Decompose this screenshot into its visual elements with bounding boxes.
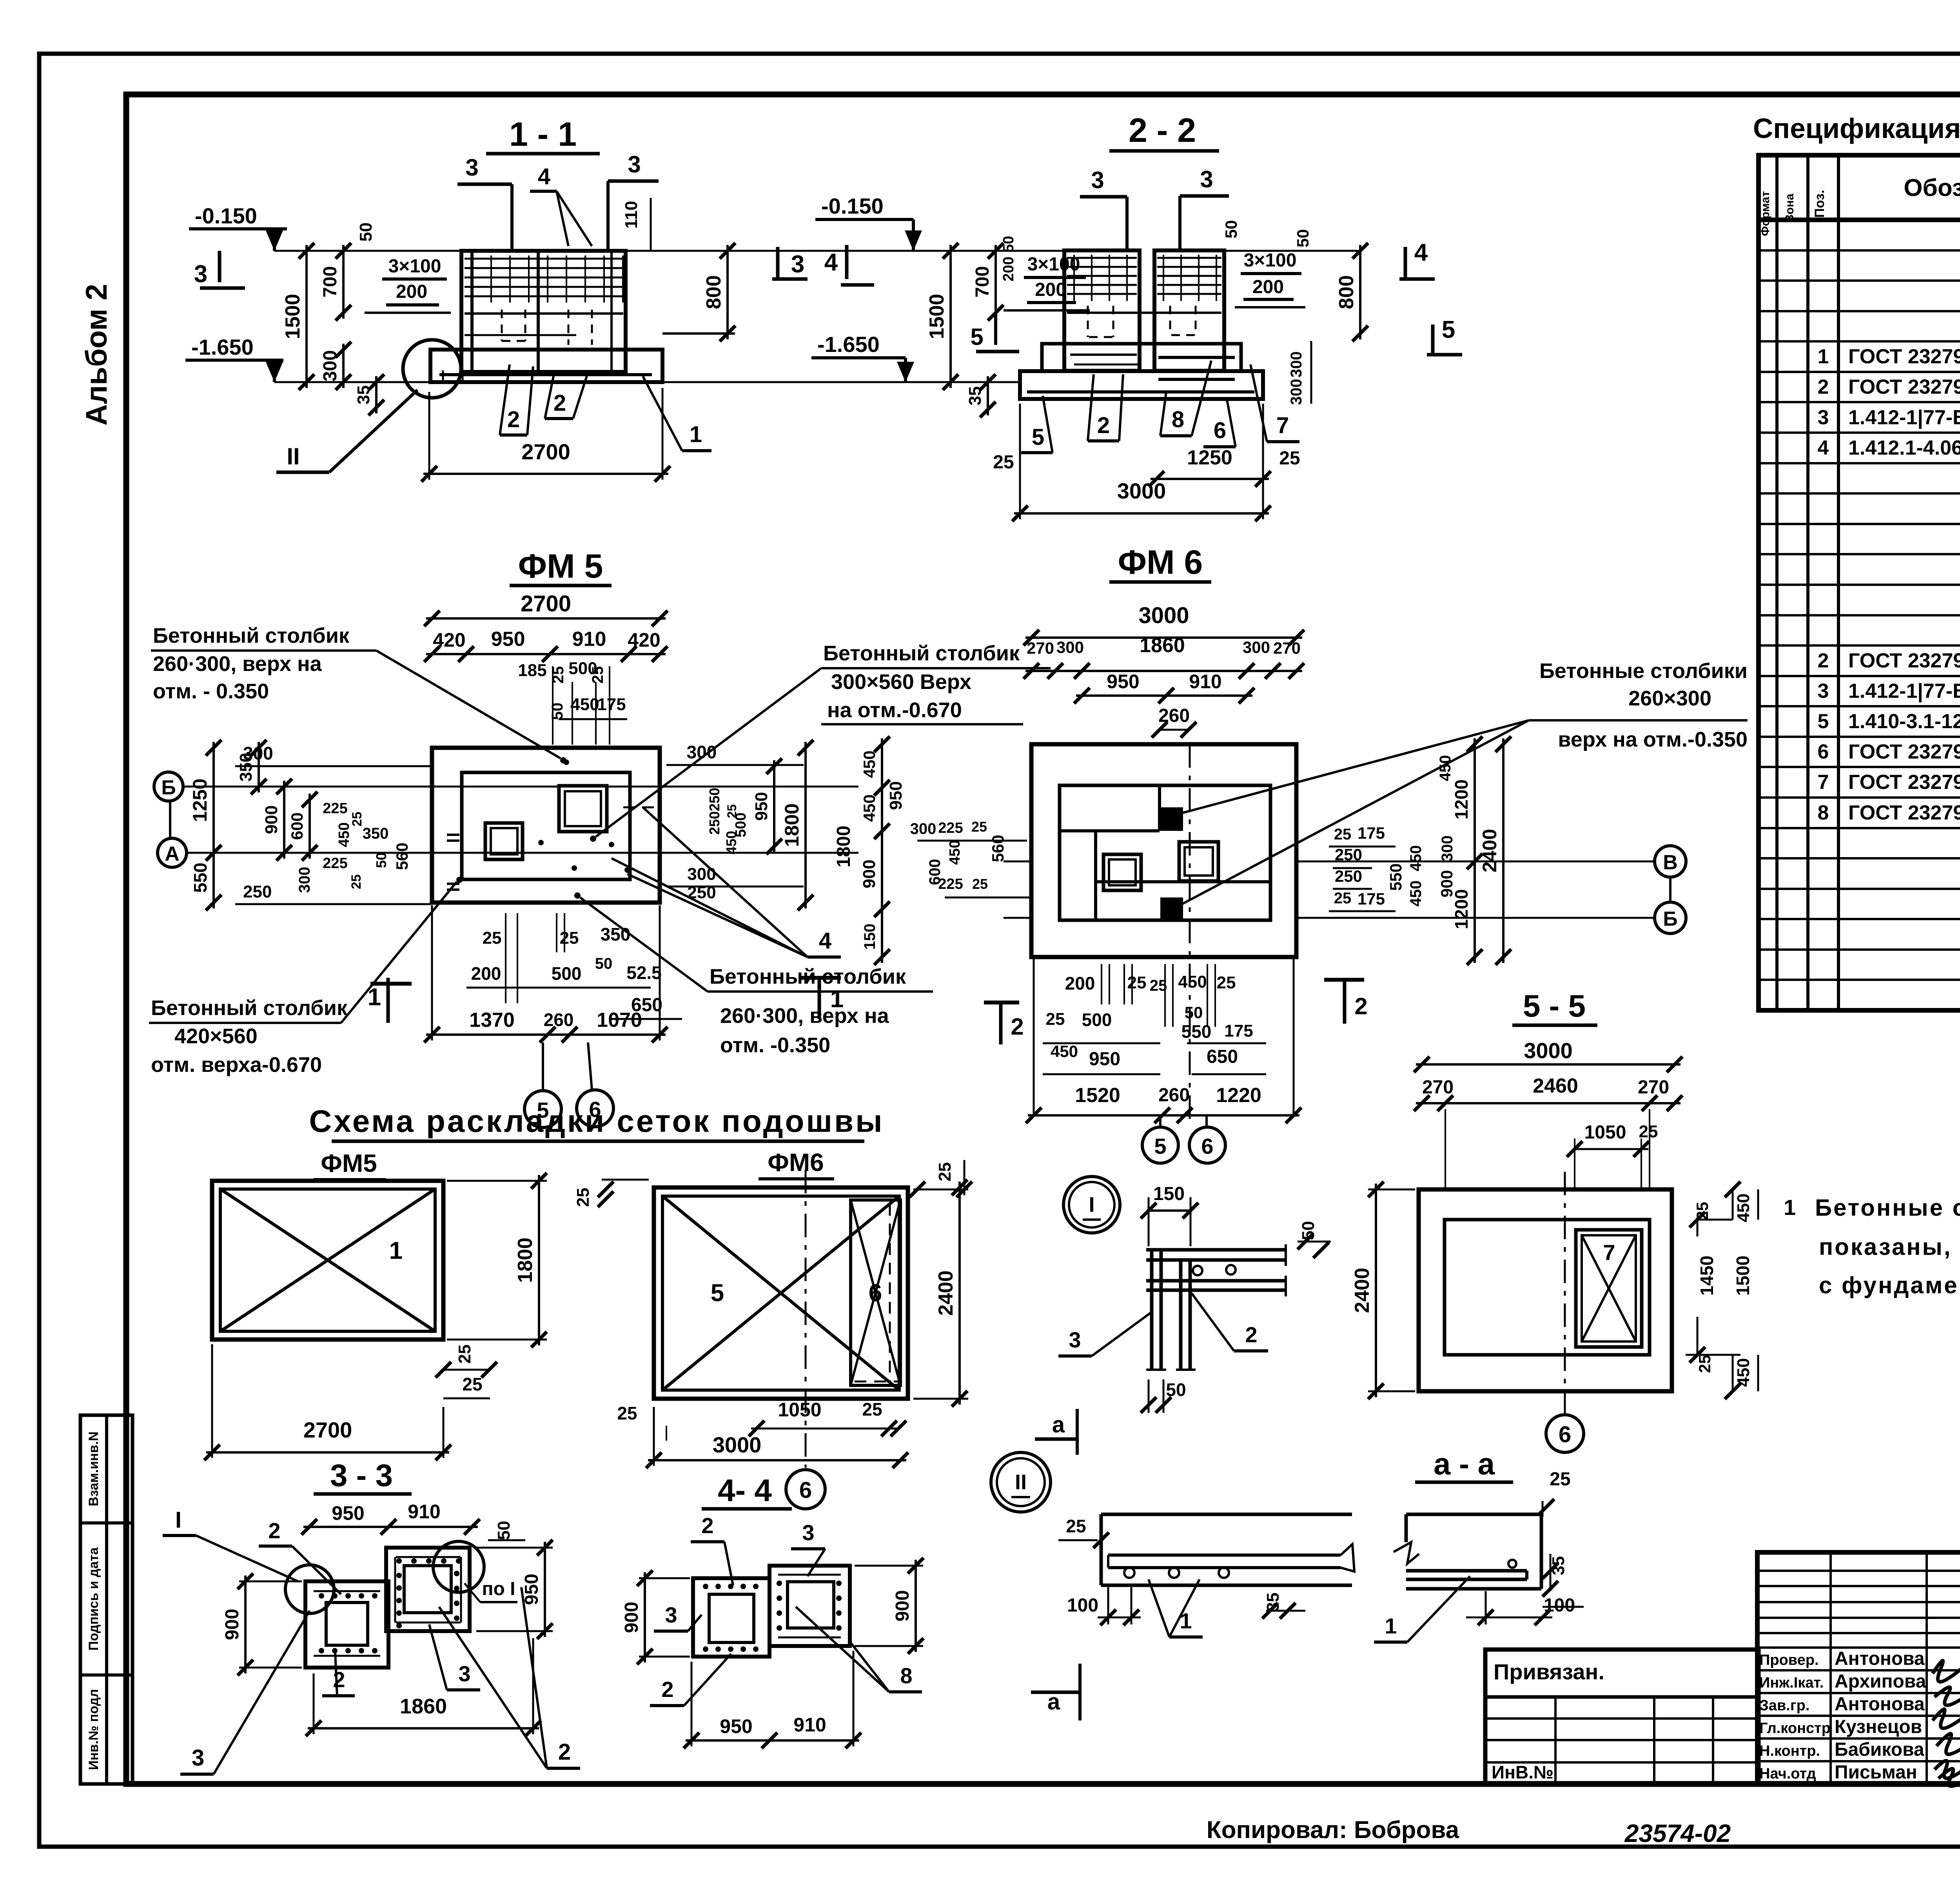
svg-text:450: 450 [1407, 845, 1425, 872]
svg-text:225: 225 [323, 800, 347, 817]
FM5 right column square [559, 786, 607, 832]
svg-text:175: 175 [1224, 1021, 1253, 1041]
svg-text:25: 25 [1334, 890, 1352, 907]
FM5 label betonny stolbik right [590, 642, 1051, 842]
svg-text:25: 25 [462, 1374, 482, 1394]
svg-text:а: а [1052, 1412, 1065, 1438]
svg-text:800: 800 [702, 275, 725, 309]
1-1 label 2 leaders [500, 364, 588, 435]
svg-text:В: В [1663, 851, 1678, 874]
spec row pos1 [1818, 344, 1960, 372]
svg-text:300: 300 [1288, 379, 1305, 405]
svg-text:3×100: 3×100 [388, 256, 441, 277]
svg-text:Альбом 2: Альбом 2 [80, 284, 113, 426]
FM5 axis circle B [154, 772, 183, 801]
1-1 elevation -1.650 left [185, 335, 283, 382]
svg-text:4- 4: 4- 4 [718, 1473, 772, 1508]
svg-text:2700: 2700 [303, 1418, 352, 1442]
svg-text:Спецификация элементов монолит: Спецификация элементов монолитной констр… [1753, 113, 1960, 144]
2-2 dim 50 upper right [1222, 220, 1240, 239]
detail I label 3 [1058, 1313, 1151, 1356]
svg-text:1500: 1500 [281, 294, 304, 339]
svg-text:Обозначение: Обозначение [1904, 174, 1960, 201]
svg-text:25: 25 [1217, 973, 1236, 992]
svg-text:Б: Б [1663, 908, 1677, 930]
svg-text:ГОСТ 23279-85: ГОСТ 23279-85 [1848, 345, 1960, 368]
svg-text:25: 25 [617, 1403, 637, 1423]
svg-text:А: А [165, 843, 180, 865]
svg-text:950: 950 [491, 628, 525, 651]
FM5 axis line B [183, 786, 858, 788]
a-a title [1415, 1447, 1513, 1482]
svg-text:25: 25 [1334, 826, 1352, 843]
strip label Podpis i data [86, 1547, 101, 1651]
2-2 bottom labels 5 2 8 6 7 [1021, 361, 1299, 453]
svg-text:35: 35 [354, 385, 373, 404]
schema FM5 label [314, 1149, 386, 1180]
FM6 plan step [1060, 785, 1270, 920]
svg-text:450: 450 [1178, 972, 1207, 992]
svg-text:900: 900 [222, 1609, 243, 1640]
svg-text:отм. верха-0.670: отм. верха-0.670 [151, 1053, 322, 1077]
svg-text:Взам.инв.N: Взам.инв.N [86, 1432, 101, 1506]
FM6 dim 3000 top [1024, 603, 1304, 645]
5-5 callout circle 6 [1546, 1415, 1584, 1452]
FM5 dim row 420 950 910 420 [424, 628, 668, 662]
5-5 right dims 25 450 1450 1500 25 450 [1686, 1182, 1758, 1399]
svg-text:1800: 1800 [514, 1238, 537, 1283]
svg-text:4: 4 [819, 928, 831, 954]
FM6 right dims 300 900 1200 2400 [1437, 736, 1511, 965]
svg-text:2: 2 [1245, 1322, 1257, 1347]
svg-text:2400: 2400 [935, 1271, 957, 1316]
1-1 column outline [461, 251, 626, 372]
svg-text:7: 7 [1276, 413, 1289, 438]
1-1 footing slab [430, 350, 662, 382]
svg-text:Антонова: Антонова [1835, 1648, 1925, 1669]
title block outer [1757, 1552, 1960, 1784]
1-1 dim 110 [622, 198, 651, 251]
svg-text:950: 950 [332, 1502, 364, 1524]
schema FM6 dim 25 top right [909, 1160, 972, 1197]
svg-text:Привязан.: Привязан. [1494, 1659, 1604, 1684]
4-4 right square [769, 1566, 850, 1646]
svg-text:Подпись и дата: Подпись и дата [86, 1547, 101, 1651]
svg-text:5: 5 [1442, 316, 1455, 343]
1-1 label 1 leader [643, 376, 711, 451]
svg-text:верх на отм.-0.350: верх на отм.-0.350 [1558, 728, 1748, 751]
1-1 right markers 3 and 4 [772, 245, 874, 285]
svg-text:5: 5 [711, 1280, 724, 1307]
svg-text:1860: 1860 [400, 1695, 447, 1718]
svg-text:1: 1 [1385, 1613, 1397, 1638]
svg-text:ФМ6: ФМ6 [768, 1148, 824, 1177]
svg-text:300: 300 [910, 820, 936, 838]
FM5 right dims 300 950 1800 [666, 740, 813, 910]
svg-text:4: 4 [538, 164, 550, 189]
FM5 section marker 1T left [368, 978, 412, 1023]
3-3 dim 1860 [306, 1638, 541, 1736]
FM6 axis circle B2 [1655, 902, 1686, 934]
detail I dim 50 right [1298, 1221, 1331, 1258]
svg-text:3000: 3000 [1138, 603, 1189, 628]
4-4 label 3 top [791, 1520, 825, 1576]
svg-text:6: 6 [1818, 741, 1829, 763]
svg-text:II: II [1015, 1470, 1027, 1494]
svg-text:2460: 2460 [1533, 1075, 1578, 1097]
svg-text:4: 4 [824, 249, 838, 276]
svg-text:Бетонные столбики: Бетонные столбики [1539, 659, 1748, 683]
detail II dim 25 [1058, 1516, 1109, 1548]
svg-text:6: 6 [1201, 1134, 1213, 1158]
svg-text:Антонова: Антонова [1835, 1694, 1925, 1715]
svg-text:450: 450 [1734, 1358, 1753, 1387]
2-2 anchor dashed [1088, 306, 1196, 337]
svg-text:7: 7 [1818, 771, 1829, 794]
1-1 elevation -0.150 left [189, 203, 287, 251]
signature squiggles [1933, 1661, 1960, 1786]
svg-text:3: 3 [1091, 167, 1104, 193]
svg-text:225: 225 [938, 820, 963, 836]
schema FM5 mesh rect [212, 1181, 443, 1340]
5-5 inner rect [1445, 1220, 1650, 1355]
svg-text:Н.контр.: Н.контр. [1759, 1743, 1820, 1759]
2-2 columns mid line [1067, 312, 1221, 314]
svg-text:800: 800 [1335, 275, 1358, 309]
schema FM6 dim 3000 [646, 1407, 908, 1468]
schema FM6 inner mesh 6 [851, 1200, 900, 1385]
svg-text:25: 25 [589, 666, 606, 684]
svg-text:450: 450 [570, 695, 599, 714]
svg-text:2: 2 [701, 1513, 713, 1538]
2-2 dim 3x100 200 right [1235, 250, 1305, 307]
svg-text:35: 35 [965, 386, 985, 406]
svg-text:150: 150 [1153, 1184, 1185, 1204]
svg-text:200: 200 [1065, 973, 1095, 993]
svg-text:350: 350 [236, 753, 256, 781]
detail I dim 150 [1141, 1184, 1198, 1246]
svg-text:Архипова: Архипова [1835, 1671, 1926, 1692]
svg-text:300×560 Верх: 300×560 Верх [831, 670, 971, 694]
FM6 label betonnye stolbiki right [1168, 659, 1748, 912]
svg-text:185: 185 [518, 661, 546, 680]
4-4 label 2 bottom left [650, 1654, 731, 1706]
svg-text:260·300, верх на: 260·300, верх на [720, 1004, 889, 1028]
svg-text:Гл.констр: Гл.констр [1759, 1720, 1831, 1737]
svg-text:-1.650: -1.650 [817, 332, 880, 357]
FM6 dim row 950 910 [1074, 671, 1254, 703]
svg-text:Письман: Письман [1835, 1762, 1917, 1783]
svg-text:25: 25 [1639, 1122, 1658, 1141]
svg-text:Кузнецов: Кузнецов [1835, 1717, 1922, 1737]
schema FM6 label [759, 1148, 834, 1179]
svg-text:420: 420 [628, 629, 660, 651]
5-5 dim 1050 25 [1567, 1122, 1658, 1189]
3-3 label 1 leader [163, 1507, 298, 1581]
svg-text:3: 3 [802, 1520, 814, 1545]
svg-text:50: 50 [494, 1521, 514, 1540]
svg-text:отм. -0.350: отм. -0.350 [720, 1033, 830, 1057]
svg-text:1370: 1370 [469, 1009, 515, 1031]
svg-text:2: 2 [1818, 376, 1829, 399]
privyazan block [1485, 1650, 1759, 1784]
spec table grid [1759, 155, 1960, 1010]
FM5 plan title [510, 547, 612, 586]
svg-text:900: 900 [621, 1602, 642, 1633]
note text line 3 [1819, 1272, 1960, 1298]
svg-text:Бабикова: Бабикова [1835, 1739, 1924, 1760]
svg-text:3: 3 [628, 151, 641, 178]
FM6 dim 260 [1152, 705, 1196, 738]
svg-text:5: 5 [1032, 424, 1044, 450]
FM5 small dims 185 25 500 25 [518, 659, 610, 745]
2-2 top marker 3 right [1180, 166, 1229, 251]
svg-text:50: 50 [373, 852, 389, 868]
svg-text:3 - 3: 3 - 3 [330, 1458, 393, 1493]
a-a dim 25 [1539, 1469, 1571, 1517]
FM5 left dims 300 350 [235, 740, 431, 794]
FM6 plan title [1109, 544, 1211, 582]
svg-text:25: 25 [483, 928, 502, 948]
note text line 2 [1819, 1234, 1960, 1260]
schema FM6 dim 2400 [913, 1180, 968, 1407]
4-4 dim 900 left [621, 1570, 690, 1664]
svg-text:Схема раскладки сеток подошвы: Схема раскладки сеток подошвы [309, 1104, 884, 1138]
svg-text:175: 175 [1357, 890, 1385, 908]
1-1 inner step lines [465, 314, 623, 335]
1-1 top marker 3 right [608, 151, 659, 251]
FM6 left small dims 300 225 450 25 560 [910, 819, 1031, 897]
FM6 bottom dims row3 450 950 650 [1043, 1042, 1266, 1074]
svg-text:150: 150 [861, 924, 878, 950]
svg-text:300: 300 [1056, 638, 1084, 656]
1-1 dim 800 right [662, 243, 735, 341]
svg-text:Бетонный столбик: Бетонный столбик [710, 965, 906, 988]
svg-text:25: 25 [993, 452, 1014, 473]
svg-text:200: 200 [1035, 279, 1066, 300]
svg-text:910: 910 [572, 628, 606, 651]
schema FM6 dim 25 top left [573, 1180, 649, 1207]
spec table header labels [1759, 174, 1960, 236]
5-5 mesh 7 rect [1576, 1230, 1642, 1347]
FM6 T2 marker left [984, 1002, 1024, 1044]
svg-text:25: 25 [1695, 1355, 1714, 1373]
svg-text:250: 250 [243, 882, 272, 901]
svg-text:950: 950 [720, 1715, 752, 1737]
svg-text:300: 300 [1439, 836, 1456, 862]
FM5 axis line A [185, 852, 858, 854]
FM6 left dims column [833, 736, 906, 965]
svg-text:Зав.гр.: Зав.гр. [1759, 1697, 1809, 1714]
svg-text:260: 260 [544, 1010, 574, 1030]
detail I corner mesh vertical bars [1146, 1250, 1196, 1370]
svg-text:175: 175 [597, 695, 626, 714]
3-3 dim 950 right [476, 1540, 553, 1639]
detail I label 2 [1192, 1293, 1268, 1351]
spec row pos8 fm6 [1818, 800, 1960, 828]
svg-text:1: 1 [690, 422, 702, 447]
1-1 column rebar verticals [472, 253, 612, 376]
svg-text:ГОСТ 23279.85: ГОСТ 23279.85 [1848, 649, 1960, 672]
svg-text:1250: 1250 [189, 778, 211, 822]
FM6 bottom projection lines [1034, 744, 1294, 1125]
svg-text:ГОСТ 23279 -85: ГОСТ 23279 -85 [1848, 771, 1960, 794]
svg-text:2: 2 [554, 390, 566, 416]
svg-text:25: 25 [1127, 973, 1147, 992]
FM6 callout circles 5 6 [1142, 1115, 1225, 1163]
svg-text:260×300: 260×300 [1628, 687, 1711, 710]
svg-text:52.5: 52.5 [626, 963, 662, 983]
svg-text:ИнВ.№: ИнВ.№ [1492, 1762, 1553, 1782]
svg-text:1: 1 [389, 1237, 403, 1264]
FM5 bottom dim 1370 260 1070 [424, 905, 668, 1042]
FM5 plan step rect [462, 772, 630, 879]
svg-text:а - а: а - а [1434, 1447, 1495, 1481]
svg-text:550: 550 [1387, 863, 1405, 891]
svg-text:3: 3 [192, 1745, 204, 1771]
5-5 centerline [1564, 1172, 1566, 1415]
svg-text:I: I [175, 1507, 181, 1533]
svg-text:3000: 3000 [713, 1432, 762, 1457]
svg-text:100: 100 [1067, 1595, 1098, 1616]
svg-text:50: 50 [1294, 229, 1312, 248]
svg-text:25: 25 [935, 1162, 955, 1182]
section 5-5 title [1512, 988, 1597, 1025]
2-2 right markers 4 5 [1399, 239, 1462, 355]
svg-text:25: 25 [455, 1345, 474, 1364]
1-1 dim 1500 left [281, 243, 314, 390]
svg-text:450: 450 [947, 840, 963, 865]
2-2 pedestal step [1042, 344, 1241, 371]
3-3 label 2 top leader [259, 1518, 341, 1594]
spec row pos3 [1818, 406, 1960, 429]
3-3 label 2 right bottom [439, 1587, 580, 1768]
svg-text:6: 6 [799, 1477, 812, 1503]
svg-text:50: 50 [595, 955, 613, 972]
svg-text:500: 500 [552, 963, 582, 984]
detail I corner mesh horizontal bars [1146, 1244, 1286, 1296]
svg-text:350: 350 [601, 924, 631, 944]
svg-text:300: 300 [687, 865, 716, 884]
svg-text:1800: 1800 [781, 803, 803, 847]
svg-text:8: 8 [1172, 407, 1184, 432]
svg-text:270: 270 [1273, 639, 1301, 657]
detail II dim 100 [1067, 1587, 1141, 1625]
svg-text:на отм.-0.670: на отм.-0.670 [827, 698, 962, 722]
svg-text:6: 6 [1214, 418, 1226, 443]
svg-text:8: 8 [900, 1663, 912, 1688]
svg-text:1050: 1050 [1584, 1122, 1626, 1143]
FM5 plan outer footprint [432, 748, 660, 903]
svg-text:Копировал: Боброва: Копировал: Боброва [1207, 1816, 1459, 1844]
svg-text:2: 2 [333, 1667, 345, 1692]
svg-text:3: 3 [791, 251, 804, 278]
3-3 left square [305, 1581, 388, 1668]
svg-text:2: 2 [558, 1739, 571, 1765]
svg-text:по I: по I [482, 1579, 515, 1599]
svg-text:50: 50 [549, 703, 566, 720]
1-1 dim 2700 bottom [421, 388, 670, 482]
svg-text:Инв.№ подл: Инв.№ подл [86, 1689, 101, 1770]
svg-text:2700: 2700 [521, 439, 570, 464]
3-3 label 2 bottom [322, 1652, 355, 1696]
svg-text:ФМ5: ФМ5 [321, 1149, 377, 1177]
svg-text:600: 600 [288, 812, 306, 840]
title block signature table grid [1757, 1552, 1960, 1784]
svg-text:420: 420 [433, 629, 465, 651]
svg-text:200: 200 [471, 963, 501, 984]
svg-text:3: 3 [465, 154, 478, 181]
2-2 dim 50 right small [1294, 229, 1312, 248]
4-4 label 3 left [654, 1603, 702, 1631]
svg-text:ФМ 5: ФМ 5 [518, 547, 603, 585]
svg-text:25: 25 [350, 812, 365, 827]
svg-text:950: 950 [1089, 1049, 1120, 1070]
svg-text:Бетонный столбик: Бетонный столбик [153, 624, 350, 647]
svg-text:1.410-3.1-12: 1.410-3.1-12 [1848, 710, 1960, 733]
svg-text:910: 910 [408, 1501, 440, 1523]
2-2 dim 1250 25 [1149, 446, 1300, 487]
svg-text:175: 175 [1357, 824, 1385, 842]
svg-text:1050: 1050 [778, 1399, 821, 1421]
svg-text:1520: 1520 [1075, 1084, 1120, 1107]
2-2 dim 3x100 200 left [1004, 254, 1090, 310]
svg-text:1450: 1450 [1697, 1256, 1717, 1296]
schema FM6 bottom dims 25 1050 25 [617, 1399, 906, 1441]
4-4 left square [693, 1578, 769, 1657]
4-4 dim 900 right [855, 1558, 924, 1654]
svg-text:450: 450 [1407, 881, 1425, 907]
1-1 column mesh hatch [465, 256, 623, 303]
svg-text:25: 25 [573, 1188, 593, 1207]
svg-text:1200: 1200 [1451, 889, 1472, 929]
svg-text:3000: 3000 [1117, 479, 1166, 503]
spec row pos2 fm6 [1818, 648, 1960, 676]
svg-text:300: 300 [296, 867, 313, 893]
svg-text:с фундаментами.: с фундаментами. [1819, 1272, 1960, 1298]
svg-text:450: 450 [1051, 1042, 1078, 1060]
1-1 anchor plates dashed [502, 310, 592, 345]
schema FM5 dim 1800 [447, 1173, 547, 1347]
svg-text:-0.150: -0.150 [821, 194, 884, 218]
FM6 bottom dim 1520 260 1220 [1026, 1084, 1301, 1123]
FM5 label 4 leader [612, 807, 841, 957]
spec row pos7 fm6 [1818, 769, 1960, 797]
FM6 plan outer footprint [1031, 744, 1296, 957]
svg-text:1: 1 [1818, 345, 1829, 368]
spec row pos4 [1818, 437, 1960, 459]
svg-text:2: 2 [661, 1677, 673, 1702]
svg-text:4: 4 [1818, 437, 1829, 459]
svg-text:Провер.: Провер. [1759, 1652, 1819, 1668]
2-2 dim 800 right [1335, 243, 1368, 341]
svg-text:Бетонный столбик: Бетонный столбик [151, 996, 348, 1020]
svg-text:560: 560 [989, 835, 1007, 862]
svg-text:225: 225 [323, 855, 347, 872]
svg-text:300: 300 [687, 742, 717, 762]
schema FM5 dims 25 25 [436, 1345, 497, 1398]
svg-text:I: I [1089, 1193, 1094, 1216]
svg-text:900: 900 [892, 1590, 913, 1621]
svg-text:2 - 2: 2 - 2 [1129, 112, 1196, 149]
svg-text:Поз.: Поз. [1812, 190, 1827, 218]
1-1 level extension lines [274, 251, 913, 382]
FM5 small dims 50 450 175 [549, 695, 627, 720]
a-a label 1 [1374, 1576, 1470, 1642]
svg-text:225: 225 [938, 876, 963, 892]
svg-text:2400: 2400 [1351, 1268, 1374, 1313]
signature rows names [1759, 1648, 1926, 1783]
